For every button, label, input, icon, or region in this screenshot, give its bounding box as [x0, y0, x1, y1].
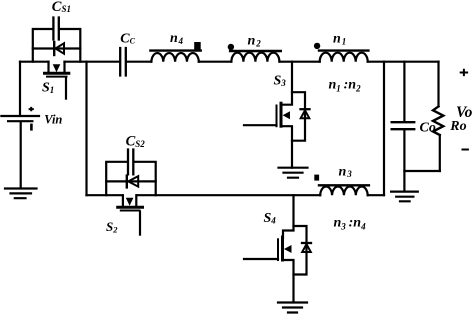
- svg-text:n3 :n4: n3 :n4: [334, 215, 367, 231]
- svg-text:S1: S1: [42, 81, 54, 96]
- svg-text:CS1: CS1: [52, 0, 71, 15]
- svg-text:Ro: Ro: [449, 119, 466, 134]
- svg-text:n1: n1: [333, 32, 346, 47]
- svg-text:n4: n4: [170, 31, 183, 46]
- svg-text:S3: S3: [274, 74, 287, 89]
- svg-text:S4: S4: [264, 211, 277, 226]
- svg-text:S2: S2: [106, 219, 118, 235]
- svg-text:n2: n2: [248, 34, 262, 49]
- svg-text:Co: Co: [420, 121, 436, 136]
- svg-text:Vo: Vo: [456, 104, 473, 121]
- svg-text:n1 :n2: n1 :n2: [329, 78, 362, 94]
- svg-text:CC: CC: [120, 31, 135, 46]
- svg-text:n3: n3: [339, 165, 353, 180]
- svg-text:Vin: Vin: [44, 112, 62, 126]
- svg-text:CS2: CS2: [126, 134, 146, 150]
